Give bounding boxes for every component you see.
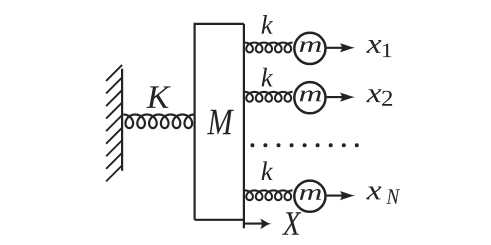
- dotted continuation: [250, 143, 358, 147]
- spring k3: [245, 190, 293, 200]
- mass M box: [195, 24, 244, 220]
- mass m1 circle: [294, 33, 325, 64]
- spring k1: [245, 43, 293, 53]
- label k (row 3): [262, 161, 273, 180]
- label k (row 2): [262, 68, 273, 87]
- label K: [146, 86, 170, 108]
- label X: [282, 212, 301, 235]
- spring K: [123, 115, 194, 129]
- arrow x2: [327, 96, 344, 98]
- label M: [207, 110, 234, 135]
- label m (row 1): [300, 41, 321, 52]
- label m (row 3): [300, 189, 321, 200]
- label k (row 1): [262, 15, 273, 34]
- mass m2 circle: [294, 82, 325, 113]
- label x_2: [366, 89, 381, 102]
- spring k2: [245, 92, 293, 102]
- arrow x3: [327, 195, 344, 197]
- wall: [106, 65, 122, 181]
- label x_N: [366, 187, 381, 200]
- mass m3 circle: [294, 181, 325, 212]
- label x_1: [366, 40, 381, 53]
- label m (row 2): [300, 91, 321, 102]
- arrow x1: [327, 47, 344, 49]
- arrow X (origin of M): [245, 223, 262, 225]
